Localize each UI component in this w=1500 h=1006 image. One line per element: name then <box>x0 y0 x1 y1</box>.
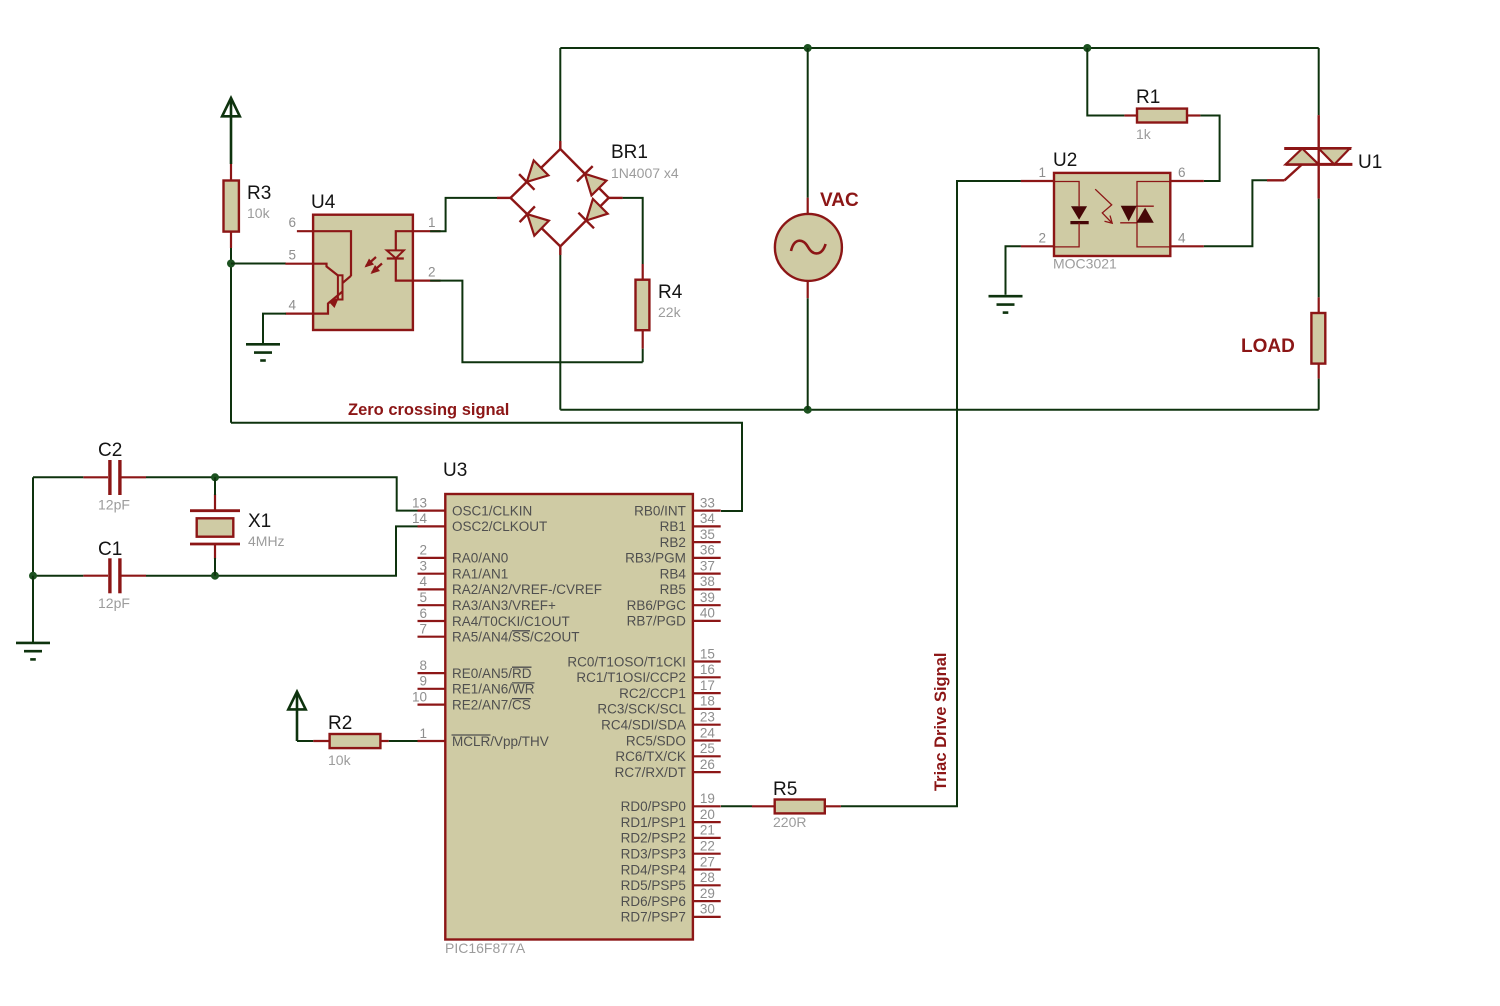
svg-text:28: 28 <box>700 870 715 885</box>
svg-text:21: 21 <box>700 823 715 838</box>
svg-text:25: 25 <box>700 741 715 756</box>
svg-text:22: 22 <box>700 839 715 854</box>
svg-text:5: 5 <box>419 590 427 605</box>
U2 internal LED <box>1054 182 1089 247</box>
svg-text:RC5/SDO: RC5/SDO <box>626 733 686 748</box>
svg-text:7: 7 <box>419 622 427 637</box>
svg-text:34: 34 <box>700 511 716 526</box>
wire R2 to MCLR <box>389 740 418 742</box>
svg-text:14: 14 <box>412 511 428 526</box>
U3 pin 24 <box>693 725 721 740</box>
U3 pin 28 <box>693 870 721 885</box>
U3 pin 33 <box>693 495 721 510</box>
U3 pin 22 <box>693 839 721 854</box>
svg-text:36: 36 <box>700 543 715 558</box>
wire caps left vertical <box>32 477 34 575</box>
svg-text:29: 29 <box>700 886 715 901</box>
svg-text:RC0/T1OSO/T1CKI: RC0/T1OSO/T1CKI <box>567 654 686 669</box>
svg-text:R1: R1 <box>1136 87 1160 108</box>
svg-text:4MHz: 4MHz <box>248 533 285 549</box>
resistor R2 <box>313 713 388 768</box>
svg-text:R4: R4 <box>658 282 683 303</box>
svg-text:U1: U1 <box>1358 152 1382 173</box>
svg-text:RB7/PGD: RB7/PGD <box>627 614 687 629</box>
svg-text:RD7/PSP7: RD7/PSP7 <box>621 910 686 925</box>
svg-text:C2: C2 <box>98 440 122 461</box>
wire R3 bottom to node <box>230 248 232 264</box>
svg-text:20: 20 <box>700 807 715 822</box>
svg-text:Triac Drive Signal: Triac Drive Signal <box>932 653 950 791</box>
U3 pin 16 <box>693 662 721 677</box>
resistor R4 <box>636 264 683 349</box>
optotriac U2 <box>1021 150 1204 272</box>
BR1 diode D4 (bottom-right) <box>578 199 607 228</box>
svg-text:U3: U3 <box>443 460 467 481</box>
svg-text:12pF: 12pF <box>98 595 130 611</box>
U3 pin 14 <box>412 511 445 526</box>
svg-text:18: 18 <box>700 694 715 709</box>
wire node to zero-crossing run (vertical) <box>230 264 232 423</box>
node C2 / X1 top <box>211 473 219 481</box>
svg-text:RB0/INT: RB0/INT <box>634 503 686 518</box>
svg-text:PIC16F877A: PIC16F877A <box>445 940 526 956</box>
U3 pin 4 <box>418 574 446 589</box>
wire triac branch from rail <box>1318 48 1320 115</box>
svg-text:RD0/PSP0: RD0/PSP0 <box>621 799 686 814</box>
resistor R1 <box>1124 87 1200 142</box>
resistor LOAD <box>1241 297 1325 378</box>
U3 pin 6 <box>418 606 446 621</box>
BR1 diode D2 (top-right) <box>577 166 606 195</box>
wire triac to LOAD <box>1318 199 1320 298</box>
wire zero crossing horizontal <box>231 423 742 511</box>
U3 pin 38 <box>693 574 721 589</box>
svg-text:LOAD: LOAD <box>1241 336 1295 357</box>
svg-text:RD6/PSP6: RD6/PSP6 <box>621 894 686 909</box>
svg-text:R2: R2 <box>328 713 352 734</box>
svg-text:U2: U2 <box>1053 150 1077 171</box>
BR1 diode D3 (bottom-left) <box>520 206 549 235</box>
svg-text:MOC3021: MOC3021 <box>1053 256 1117 272</box>
svg-text:6: 6 <box>1178 165 1186 180</box>
svg-text:8: 8 <box>419 658 427 673</box>
U3 pin 30 <box>693 902 721 917</box>
crystal X1 <box>190 494 285 559</box>
node VAC top <box>804 44 812 52</box>
wire bridge right to R4 <box>623 198 643 264</box>
svg-text:12pF: 12pF <box>98 497 130 513</box>
U4 internal LED <box>387 231 413 280</box>
U3 pin 18 <box>693 694 721 709</box>
U3 pin 2 <box>418 543 446 558</box>
wire node to U4 pin 5 <box>231 263 286 265</box>
svg-text:5: 5 <box>288 248 296 263</box>
svg-text:1k: 1k <box>1136 126 1152 142</box>
svg-text:RA2/AN2/VREF-/CVREF: RA2/AN2/VREF-/CVREF <box>452 582 602 597</box>
svg-text:RE0/AN5/RD: RE0/AN5/RD <box>452 666 532 681</box>
triac U1 <box>1267 115 1382 199</box>
ground under U4 pin 4 <box>246 314 286 361</box>
U3 pin 36 <box>693 543 721 558</box>
svg-text:RA5/AN4/SS/C2OUT: RA5/AN4/SS/C2OUT <box>452 630 580 645</box>
U3 pin 13 <box>412 495 445 510</box>
svg-text:RB4: RB4 <box>660 566 687 581</box>
svg-text:RA1/AN1: RA1/AN1 <box>452 567 508 582</box>
svg-text:10: 10 <box>412 689 427 704</box>
wire R1 branch down from rail <box>1087 48 1124 116</box>
wire U4 pin1 to bridge left <box>430 198 497 231</box>
capacitor C2 <box>83 440 146 513</box>
svg-text:13: 13 <box>412 495 427 510</box>
svg-text:C1: C1 <box>98 539 122 560</box>
wire U2 pin4 to triac gate <box>1204 180 1267 246</box>
wire X1 top stub <box>214 477 216 495</box>
U3 pin 1 <box>418 726 446 741</box>
svg-text:OSC2/CLKOUT: OSC2/CLKOUT <box>452 519 547 534</box>
node caps ground <box>29 572 37 580</box>
U3 pin 37 <box>693 558 721 573</box>
node C1 / X1 bottom <box>211 572 219 580</box>
svg-text:33: 33 <box>700 495 715 510</box>
U3 pin 35 <box>693 527 721 542</box>
wire to ground <box>32 576 34 643</box>
U3 pin 20 <box>693 807 721 822</box>
svg-text:2: 2 <box>419 543 427 558</box>
svg-text:35: 35 <box>700 527 715 542</box>
svg-text:RA0/AN0: RA0/AN0 <box>452 551 508 566</box>
wire U4 pin2 to R4 bottom <box>430 281 643 363</box>
svg-text:RB2: RB2 <box>660 535 686 550</box>
U2 internal triac <box>1120 182 1170 247</box>
power flag VCC (R2) <box>288 692 305 741</box>
svg-text:U4: U4 <box>311 192 336 213</box>
svg-text:1N4007 x4: 1N4007 x4 <box>611 165 679 181</box>
svg-text:VAC: VAC <box>820 190 859 211</box>
AC source VAC <box>775 48 859 410</box>
svg-text:10k: 10k <box>328 752 352 768</box>
svg-text:RB1: RB1 <box>660 519 686 534</box>
svg-text:RA3/AN3/VREF+: RA3/AN3/VREF+ <box>452 598 556 613</box>
svg-text:39: 39 <box>700 590 715 605</box>
svg-text:RC7/RX/DT: RC7/RX/DT <box>615 765 686 780</box>
U2 light arrow <box>1095 189 1112 223</box>
svg-text:RC2/CCP1: RC2/CCP1 <box>619 686 686 701</box>
wire X1 bottom stub <box>214 558 216 576</box>
svg-text:17: 17 <box>700 678 715 693</box>
U3 pin 34 <box>693 511 721 526</box>
U3 pin 21 <box>693 823 721 838</box>
svg-text:15: 15 <box>700 646 715 661</box>
power flag VCC (top-left) <box>222 98 240 164</box>
U4 light arrows <box>365 257 383 274</box>
svg-text:19: 19 <box>700 791 715 806</box>
svg-text:RE2/AN7/CS: RE2/AN7/CS <box>452 697 531 712</box>
U3 pin 26 <box>693 757 721 772</box>
svg-text:RB6/PGC: RB6/PGC <box>627 598 687 613</box>
svg-text:RC4/SDI/SDA: RC4/SDI/SDA <box>601 718 686 733</box>
resistor R5 <box>752 779 841 830</box>
wire R4 bottom <box>642 349 644 363</box>
U3 pin 23 <box>693 710 721 725</box>
svg-text:220R: 220R <box>773 814 806 830</box>
wire C1 row to OSC2 <box>33 575 83 577</box>
svg-text:27: 27 <box>700 854 715 869</box>
svg-text:2: 2 <box>428 265 436 280</box>
svg-text:X1: X1 <box>248 511 271 532</box>
U3 pin 19 <box>693 791 721 806</box>
svg-text:R5: R5 <box>773 779 797 800</box>
svg-text:BR1: BR1 <box>611 142 648 163</box>
svg-text:26: 26 <box>700 757 715 772</box>
wire LOAD bottom to rail <box>1318 379 1320 410</box>
wire U2 pin2 to ground <box>1006 246 1021 294</box>
node VAC bottom <box>804 406 812 414</box>
svg-text:RE1/AN6/WR: RE1/AN6/WR <box>452 682 535 697</box>
svg-text:R3: R3 <box>247 183 271 204</box>
svg-text:37: 37 <box>700 558 715 573</box>
svg-text:OSC1/CLKIN: OSC1/CLKIN <box>452 503 532 518</box>
svg-text:40: 40 <box>700 606 715 621</box>
svg-text:RD5/PSP5: RD5/PSP5 <box>621 878 686 893</box>
svg-text:RC3/SCK/SCL: RC3/SCK/SCL <box>597 702 686 717</box>
svg-text:1: 1 <box>428 215 436 230</box>
BR1 diode D1 (top-left) <box>519 160 548 189</box>
svg-text:4: 4 <box>1178 230 1186 245</box>
U4 internal phototransistor <box>313 231 351 313</box>
svg-text:38: 38 <box>700 574 715 589</box>
node R1 branch <box>1083 44 1091 52</box>
U3 pin 9 <box>418 674 446 689</box>
U3 pin 7 <box>418 622 446 637</box>
U3 pin 10 <box>412 689 445 704</box>
svg-text:RD4/PSP4: RD4/PSP4 <box>621 862 687 877</box>
U3 pin 29 <box>693 886 721 901</box>
svg-text:6: 6 <box>288 215 296 230</box>
svg-text:RD1/PSP1: RD1/PSP1 <box>621 815 686 830</box>
wire triac drive signal (R5 to U2 pin1) <box>841 181 1021 806</box>
capacitor C1 <box>83 539 146 611</box>
svg-text:10k: 10k <box>247 205 271 221</box>
svg-text:RC6/TX/CK: RC6/TX/CK <box>615 749 686 764</box>
wire top AC rail <box>560 47 1318 49</box>
U3 pin 40 <box>693 606 721 621</box>
optocoupler U4 <box>285 192 440 330</box>
U3 pin 8 <box>418 658 446 673</box>
svg-text:24: 24 <box>700 725 716 740</box>
wire R1 to U2 pin 6 <box>1200 116 1219 182</box>
svg-text:16: 16 <box>700 662 715 677</box>
U3 pin 27 <box>693 854 721 869</box>
U3 pin 5 <box>418 590 446 605</box>
wire RD0 to R5 <box>721 805 752 807</box>
svg-text:1: 1 <box>1038 165 1046 180</box>
microcontroller U3 PIC16F877A <box>443 460 693 956</box>
svg-text:RB5: RB5 <box>660 582 686 597</box>
svg-text:9: 9 <box>419 674 427 689</box>
svg-text:6: 6 <box>419 606 427 621</box>
svg-text:RD3/PSP3: RD3/PSP3 <box>621 847 686 862</box>
U3 pin 15 <box>693 646 721 661</box>
svg-text:23: 23 <box>700 710 715 725</box>
U3 pin 3 <box>418 559 446 574</box>
svg-text:MCLR/Vpp/THV: MCLR/Vpp/THV <box>452 734 549 749</box>
ground under C1/C2 <box>16 643 50 660</box>
svg-text:RB3/PGM: RB3/PGM <box>625 551 686 566</box>
wire VCC to R2 <box>297 740 313 742</box>
svg-text:RA4/T0CKI/C1OUT: RA4/T0CKI/C1OUT <box>452 614 570 629</box>
wire bridge top to AC rail <box>559 48 561 141</box>
resistor R3 <box>224 164 272 248</box>
ground under U2 <box>989 296 1023 312</box>
wire bottom AC rail <box>560 409 1318 411</box>
node junction at R3 / U4 pin5 <box>227 260 235 268</box>
svg-text:22k: 22k <box>658 304 682 320</box>
svg-text:RD2/PSP2: RD2/PSP2 <box>621 831 686 846</box>
U3 pin 17 <box>693 678 721 693</box>
svg-text:RC1/T1OSI/CCP2: RC1/T1OSI/CCP2 <box>576 670 686 685</box>
wire bridge bottom to AC rail <box>559 255 561 410</box>
svg-text:30: 30 <box>700 902 715 917</box>
bridge rectifier BR1 <box>497 141 679 255</box>
svg-text:4: 4 <box>419 574 427 589</box>
svg-text:1: 1 <box>419 726 427 741</box>
svg-text:3: 3 <box>419 559 427 574</box>
svg-text:2: 2 <box>1038 230 1046 245</box>
U3 pin 39 <box>693 590 721 605</box>
svg-text:Zero crossing signal: Zero crossing signal <box>348 401 509 419</box>
svg-text:4: 4 <box>288 298 296 313</box>
wire C2 row to OSC1 <box>33 476 83 478</box>
U3 pin 25 <box>693 741 721 756</box>
